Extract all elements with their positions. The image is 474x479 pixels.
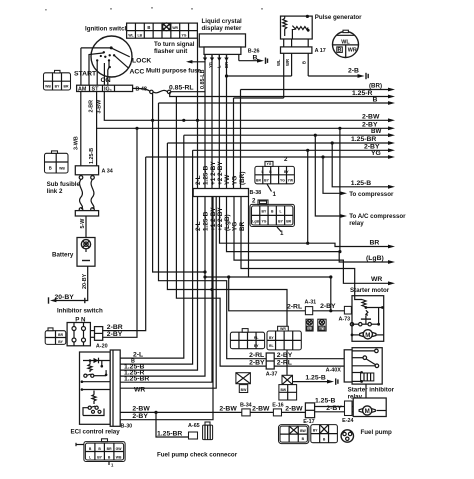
svg-text:WR: WR [285,59,290,66]
wire 1.25-BR [167,136,395,145]
starter motor internals [350,296,384,339]
svg-text:2: 2 [284,156,288,163]
wire to 1.25-B compressor [331,141,395,188]
svg-text:BR: BR [107,447,112,451]
svg-text:1.25-B: 1.25-B [203,211,210,231]
wire AM down [80,92,82,166]
svg-text:+1 2-BY: +1 2-BY [210,161,217,185]
starter inhibitor relay label [348,387,395,401]
svg-text:+2 2-BY: +2 2-BY [217,207,224,231]
connector A-20 [90,327,107,350]
svg-text:flasher unit: flasher unit [154,48,187,55]
svg-text:LB: LB [138,34,143,38]
svg-text:Fuel pump check connecor: Fuel pump check connecor [157,452,238,459]
ECI lower connector [76,439,125,468]
svg-text:5-W: 5-W [80,218,86,229]
connector B-30 strip [110,350,132,430]
svg-text:START: START [74,71,97,78]
svg-text:BR: BR [64,84,69,88]
svg-text:Inhibitor switch: Inhibitor switch [57,308,103,315]
connector block detail 2 upper [255,156,295,198]
svg-text:Battery: Battery [52,252,74,259]
svg-text:BY: BY [55,84,60,88]
svg-text:WR: WR [371,276,382,283]
wire YG [146,150,395,159]
fuel pump [352,398,392,436]
wire fuse to meter pin [171,91,205,93]
wire BR out [220,197,396,249]
wire 2-RL to A-37 [249,352,265,367]
position labels LOCK ACC START ON [74,58,151,85]
ignition wire labels 2-BR 3-BW [88,99,102,114]
svg-text:RL: RL [269,344,274,348]
fusible link wires [79,175,94,212]
wire 2-BY down to ECI [120,150,192,364]
svg-text:0.85-RL: 0.85-RL [169,84,194,91]
wire BW [184,128,395,137]
bus labels above B-38 [195,161,246,185]
connector A-65 [188,423,200,439]
svg-text:E-17: E-17 [303,419,314,425]
svg-text:ECI control relay: ECI control relay [71,428,121,435]
svg-text:WB: WB [45,84,51,88]
svg-text:B: B [373,96,378,103]
svg-text:2: 2 [252,198,256,205]
svg-text:YW: YW [288,178,294,182]
svg-text:(LgB): (LgB) [366,255,384,262]
wire to starter motor feed [241,197,355,296]
connector A-31 [305,300,317,315]
svg-text:2-BW: 2-BW [252,405,270,412]
wires A-37 to starter inhibitor relay [274,352,344,374]
svg-text:(BR): (BR) [369,83,382,90]
wire 2-BY from ECI up [120,197,213,420]
svg-text:Ignition switch: Ignition switch [85,26,129,33]
svg-text:WL: WL [276,59,281,66]
pin wire labels [200,62,229,89]
svg-text:2-B: 2-B [348,68,359,75]
svg-text:(BR): (BR) [239,172,246,186]
svg-text:20-BY: 20-BY [55,294,75,301]
svg-text:WB: WB [116,455,122,459]
svg-text:2-BW: 2-BW [285,405,303,412]
svg-text:BR: BR [256,178,261,182]
connector A-40X strip [344,350,352,382]
svg-text:BY: BY [254,344,259,348]
wire 1.25-B with terminal [305,375,338,385]
fuel pump connector face [341,430,353,442]
crossed terminal symbol in flasher connector [162,23,171,31]
wire bus above B-38 [198,38,241,188]
wire 2-BW ignition feed [104,92,395,123]
liquid crystal display meter label [202,18,243,32]
svg-text:2-BY: 2-BY [132,413,148,420]
svg-text:1.25-B: 1.25-B [89,148,95,164]
svg-text:ST: ST [92,87,100,93]
svg-text:2-BY: 2-BY [277,352,293,359]
connector B-34 [240,403,252,416]
wire branch to A-37 2-BY [176,97,266,367]
svg-text:LOCK: LOCK [132,58,151,65]
svg-text:1.25-BR: 1.25-BR [124,375,149,382]
wire to compressor [321,155,394,197]
svg-text:To compressor: To compressor [349,191,394,198]
svg-text:WR: WR [134,387,145,394]
wire to A-37 2-RL via bus [159,103,267,359]
svg-text:GW: GW [116,447,123,451]
wire B [159,96,396,105]
svg-text:RL: RL [254,336,259,340]
svg-text:WL: WL [128,34,133,38]
wire feed to A-31 [227,275,332,312]
svg-text:BR: BR [370,240,380,247]
svg-text:YG: YG [232,222,239,231]
pulse generator A 17 box [281,15,313,39]
svg-text:YG: YG [182,34,187,38]
svg-text:2-RL: 2-RL [249,352,264,359]
wire BW down to ECI 2-L [120,135,184,358]
inhibitor switch connector left [45,328,66,345]
svg-text:BY: BY [313,429,318,433]
wire (LgB) out [227,197,396,264]
svg-text:BY: BY [58,340,63,344]
svg-text:YG: YG [280,178,285,182]
arrow to flasher unit [186,60,205,64]
svg-text:M: M [365,332,370,339]
svg-text:B: B [147,25,150,30]
svg-text:relay: relay [349,220,364,227]
connector A 17 strip [281,47,326,54]
starter motor box [352,296,384,342]
svg-text:BW: BW [371,128,381,135]
svg-text:BW: BW [300,429,306,433]
wire 5-W [80,216,86,238]
sub fusible link connector [45,151,69,173]
svg-text:B: B [301,61,306,64]
svg-text:IG₁: IG₁ [104,87,113,93]
svg-text:2-RL: 2-RL [277,360,292,367]
svg-text:BY: BY [97,455,102,459]
connector E-17 strip [303,403,314,425]
ground connector with cross A [236,373,251,393]
connector B-26 [239,49,268,64]
svg-text:B-34: B-34 [240,403,252,409]
wires E-17 to E-24 [315,398,345,412]
svg-text:A-65: A-65 [188,423,200,429]
svg-text:BY: BY [320,327,325,331]
fusible link lower strip [75,211,98,216]
wire branch down to LgB [338,127,341,253]
svg-text:1.25-R: 1.25-R [352,90,372,97]
wire cascade to A-31 bus [203,197,330,279]
svg-text:B: B [338,48,342,54]
meter pin arrows [203,58,229,62]
svg-text:2-L: 2-L [195,175,202,185]
meter connector pins [205,54,239,60]
wire WL down-left [234,97,284,99]
sub fusible link 2 label [47,181,81,195]
svg-text:BY: BY [269,336,274,340]
svg-text:L: L [89,455,91,459]
svg-text:2-BY: 2-BY [107,331,123,338]
svg-text:1.25-B: 1.25-B [305,375,325,382]
connector to turn signal flasher unit [127,23,198,38]
connector E-24 [342,401,353,424]
svg-text:ON: ON [101,77,111,84]
connector E-16 [272,403,283,416]
ignition switch body [91,36,132,77]
svg-text:B: B [49,166,52,171]
svg-text:Fuel pump: Fuel pump [361,429,392,436]
svg-text:WR: WR [172,26,178,30]
connector grid B [267,326,301,350]
wire 2-B with terminal [308,68,368,80]
wire 20-BY battery ground [49,266,89,304]
wire to 1.25-B terminal [167,143,330,382]
wire fuse drop to mid bus [153,93,207,274]
svg-text:BW: BW [241,388,247,392]
bus labels below B-38 [195,207,246,231]
connector grid A [230,329,264,349]
wire 2-BY to A/C [193,143,395,152]
svg-text:L: L [261,170,263,174]
svg-text:2-L: 2-L [133,351,143,358]
ECI control relay box [80,352,111,424]
svg-text:L: L [279,210,281,214]
svg-text:Pulse generator: Pulse generator [315,14,362,21]
svg-text:2-BY: 2-BY [326,405,342,412]
svg-text:To A/C compressor: To A/C compressor [349,213,406,220]
svg-text:2-BW: 2-BW [219,405,237,412]
svg-text:A-20: A-20 [96,344,108,350]
svg-text:BR: BR [286,220,291,224]
terminal connectors near A-31 [306,319,326,331]
wire to A/C compressor relay [314,134,406,227]
svg-text:3-BW: 3-BW [97,99,103,114]
svg-text:BY: BY [284,170,289,174]
svg-text:B-30: B-30 [121,424,133,430]
connector (3-cell) left of ignition [44,70,71,90]
svg-text:1.25-B: 1.25-B [351,180,371,187]
svg-text:1.25-B: 1.25-B [203,165,210,185]
svg-text:ACC: ACC [130,69,145,76]
svg-text:(LgB): (LgB) [224,214,231,231]
svg-text:YG: YG [232,176,239,185]
wire 2-BR from A-20 [103,157,146,331]
wire 1.25-BR to check connector [156,412,189,437]
wire 2-BY ignition feed [97,92,395,131]
pulse generator pin wires [276,39,308,98]
svg-text:YG: YG [371,150,381,157]
connector B-48 ignition switch strip [77,85,147,92]
svg-text:link 2: link 2 [47,188,63,195]
connector face E-17 [279,425,309,444]
wire 2-BY to starter [313,303,345,311]
ECI output wires [124,351,149,393]
pulse generator connector face WL B WR [333,30,359,57]
svg-text:2-BY: 2-BY [320,303,336,310]
wire branch down to BR [306,149,309,245]
connector face E-24 [311,425,338,443]
svg-text:20-BY: 20-BY [82,273,88,289]
wire from meter pin to pulse generator WR [225,74,292,77]
svg-text:BR: BR [239,221,246,231]
svg-text:WR: WR [280,327,286,331]
battery [52,238,95,267]
fuel pump check connector body [203,422,213,440]
wire 2-BW fuel pump feed [120,405,242,414]
fuse 0.85-RL [133,84,194,93]
svg-text:2-BY: 2-BY [249,360,265,367]
svg-text:A 34: A 34 [102,169,113,175]
svg-text:WB: WB [59,167,65,171]
svg-text:YG: YG [261,220,266,224]
starter inhibitor relay box [352,348,382,384]
svg-text:YW: YW [224,174,231,185]
wire (BR) [241,83,396,92]
svg-text:LgB: LgB [252,220,259,224]
svg-text:A-31: A-31 [305,300,317,306]
svg-text:B-38: B-38 [250,190,262,196]
svg-text:WR: WR [348,48,357,54]
wire bus below B-38 going to ECI relay [120,197,216,389]
svg-text:2-BR: 2-BR [107,324,123,331]
svg-text:M: M [365,408,370,415]
svg-text:BY: BY [264,178,269,182]
svg-text:display meter: display meter [202,25,242,32]
svg-text:2-BW: 2-BW [362,113,380,120]
page specks [45,7,263,11]
svg-text:1: 1 [273,191,277,198]
connector B-38 strip [193,189,261,197]
svg-text:E-16: E-16 [272,403,283,409]
svg-text:Multi purpose fuse: Multi purpose fuse [146,68,202,75]
svg-text:1.25-BR: 1.25-BR [157,430,182,437]
svg-text:WL: WL [341,40,350,46]
svg-text:1.25-BR: 1.25-BR [351,136,376,143]
svg-text:2-RL: 2-RL [287,304,302,311]
svg-text:2-BR: 2-BR [88,100,94,113]
svg-text:+2 2-BY: +2 2-BY [217,161,224,185]
ground connector with cross B [279,375,297,400]
svg-text:1.25-B: 1.25-B [315,398,335,405]
svg-text:E-24: E-24 [342,418,353,424]
connector A-73 [339,306,352,322]
connector block detail 1 lower [250,198,294,238]
svg-text:A-37: A-37 [266,372,278,378]
svg-text:BY: BY [262,210,267,214]
ECI relay internals [81,358,111,416]
wire relay to fuel pump [365,384,367,398]
wire 2-BW to E-16 [250,405,273,412]
svg-text:3-WB: 3-WB [74,136,80,150]
wire 2-BY from A-20 [103,128,137,338]
svg-text:BY: BY [278,220,283,224]
svg-text:2-BW: 2-BW [132,405,150,412]
svg-text:AM: AM [78,87,87,93]
svg-text:BR: BR [58,333,63,337]
svg-text:BW: BW [280,388,286,392]
liquid crystal display meter box [199,34,245,55]
svg-text:YG: YG [267,162,272,166]
svg-text:Starter motor: Starter motor [350,287,390,294]
wire 2-BW to E-17 [282,405,306,412]
wire 1.25-B down [96,128,98,166]
svg-text:2-L: 2-L [195,221,202,231]
svg-text:A-73: A-73 [339,317,351,323]
fusible link A 34 connector [75,166,112,175]
wire 1.25-R [170,90,395,99]
to turn signal flasher unit label [154,41,195,55]
inhibitor switch box [67,323,90,346]
svg-text:A-40X: A-40X [326,368,342,374]
svg-text:B: B [253,54,258,61]
svg-text:A 17: A 17 [315,48,326,54]
wire WR out [234,197,395,286]
connector A-37 [266,353,278,378]
